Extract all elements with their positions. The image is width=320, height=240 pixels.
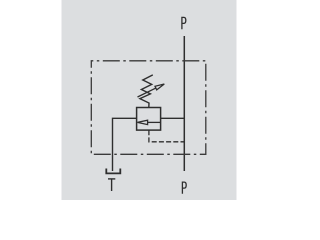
pilot line (dashed, valve bottom to P line) bbox=[149, 130, 184, 142]
valve V1 flow arrow (inside body, pointing left) bbox=[137, 120, 160, 124]
spring (zigzag above valve) bbox=[140, 75, 153, 108]
adjustment arrow (diagonal through spring) bbox=[138, 84, 165, 97]
gray drawing panel background bbox=[62, 0, 237, 200]
wire valve outlet (left side, down to tank) bbox=[113, 118, 137, 171]
wire valve inlet (right side to P line) bbox=[161, 117, 185, 119]
valve V1 body square bbox=[137, 108, 161, 131]
node P (bottom port label) bbox=[182, 182, 186, 194]
node P (top port label) bbox=[182, 17, 186, 29]
tank symbol bbox=[106, 169, 120, 174]
node T (tank label) bbox=[108, 179, 115, 191]
enclosure (dash-dot assembly boundary) bbox=[91, 61, 206, 155]
wire P line (vertical pressure line) bbox=[183, 36, 185, 171]
